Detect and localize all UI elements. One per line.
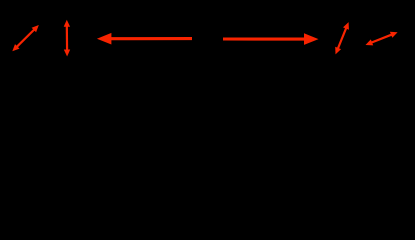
arrow C-right: right half of long horizontal double-headed arrow (head points right): [223, 33, 319, 45]
arrow C-left: left half of long horizontal double-headed arrow (head points left): [97, 33, 192, 45]
arrow A: diagonal double-headed arrow, upper left: [12, 25, 39, 51]
arrow B: vertical double-headed arrow: [64, 20, 70, 57]
arrow D: steep diagonal double-headed arrow, upper right: [335, 22, 349, 54]
arrow E: shallow diagonal double-headed arrow, far upper right: [366, 32, 398, 46]
